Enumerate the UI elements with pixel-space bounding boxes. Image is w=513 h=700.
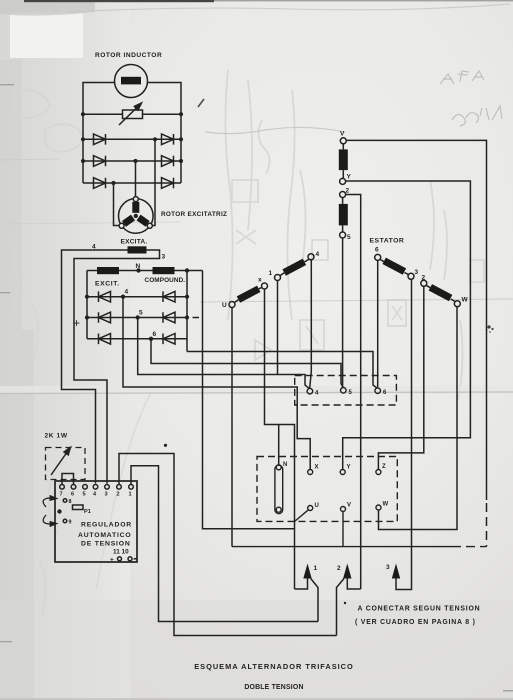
diode D4 — [162, 156, 174, 167]
pencil handwriting top right — [440, 71, 502, 126]
terminal box1-4 — [307, 388, 313, 394]
terminal 2 right stator — [421, 280, 427, 286]
svg-text:7: 7 — [60, 492, 63, 498]
terminal box1-6 — [375, 388, 381, 394]
terminal V stator — [340, 138, 346, 144]
node N (excitation neutral) — [136, 268, 140, 272]
svg-text:5: 5 — [139, 310, 143, 317]
svg-text:ROTOR INDUCTOR: ROTOR INDUCTOR — [95, 52, 162, 59]
svg-text:AUTOMATICO: AUTOMATICO — [78, 532, 131, 539]
ghost bleed-through marks — [12, 70, 484, 616]
terminal t6 — [71, 485, 76, 490]
svg-text:ESTATOR: ESTATOR — [370, 238, 405, 245]
terminal t1 — [129, 485, 134, 490]
terminal U box2 — [308, 506, 313, 511]
stator coil V-Y (black bar) — [339, 149, 348, 170]
svg-text:ROTOR EXCITATRIZ: ROTOR EXCITATRIZ — [161, 211, 227, 218]
svg-text:+: + — [110, 557, 114, 564]
terminal N box2 — [276, 465, 281, 470]
arrow 1 head — [303, 564, 311, 579]
wire: t1 loop to arrow1 lower bus — [131, 466, 318, 622]
diode D5 — [94, 178, 106, 189]
coil COMPOUND (black bar) — [153, 267, 175, 274]
svg-text:U: U — [222, 302, 227, 309]
node: stray dot 2 — [344, 602, 346, 604]
scan top edge — [24, 0, 214, 2]
wire: U box2 diagonal to arrow1 line — [295, 510, 309, 522]
stator coil 2-5 (black bar) — [339, 204, 348, 226]
svg-text:( VER CUADRO EN PAGINA 8 ): ( VER CUADRO EN PAGINA 8 ) — [355, 619, 476, 626]
terminal t7 — [60, 485, 65, 490]
terminal box 2 (dashed) — [257, 457, 397, 522]
terminal x stator — [262, 283, 268, 289]
svg-text:2K 1W: 2K 1W — [45, 433, 68, 440]
wire: bridge row 2 — [83, 160, 181, 162]
svg-text:2: 2 — [117, 492, 120, 498]
wire: V coil stubs — [342, 144, 344, 179]
wire: 2 right down then left to Z — [378, 286, 423, 469]
terminal 6 stator — [375, 254, 381, 260]
fuse bottom terminal — [276, 507, 281, 512]
terminal U stator — [229, 302, 235, 308]
terminal box 1 (dashed) — [295, 376, 397, 406]
adjuster arrows left — [43, 498, 56, 507]
terminal t5 — [83, 485, 88, 490]
fuse F1 capsule — [275, 465, 283, 514]
terminal Z box2 — [376, 470, 381, 475]
svg-text:Y: Y — [347, 174, 352, 181]
svg-text:6: 6 — [71, 492, 74, 498]
svg-text:3: 3 — [105, 492, 108, 498]
diode D1 — [94, 134, 106, 145]
terminal W box2 — [376, 505, 381, 510]
wire: excitation output row — [87, 270, 203, 272]
wire: dashed lower part of V line — [486, 503, 488, 547]
wire: row2 junction down to exciter rotor top terminal — [135, 161, 137, 197]
wire: arrow1 diagonal to lower bus — [311, 579, 318, 622]
svg-text:V: V — [347, 503, 351, 509]
regulator U1 box — [55, 481, 137, 562]
wire: 2-5 coil stubs — [342, 198, 344, 233]
wire: bus from - bus to box1 terminal 6 — [187, 352, 377, 389]
terminal X box2 — [308, 470, 313, 475]
terminal Y stator — [340, 178, 346, 184]
node: exciter center — [134, 214, 138, 218]
terminal Y box2 — [340, 470, 345, 475]
node: compound row / right bus — [185, 268, 189, 272]
wire: row3 junction down to exciter rotor left terminal — [114, 183, 120, 226]
arrow line 2 bracket — [347, 578, 360, 590]
wire: V to right side down — [346, 140, 486, 500]
wire: top bridge left bus — [82, 114, 84, 183]
svg-text:9: 9 — [69, 520, 72, 526]
resistor 2K 1W dashed box — [46, 448, 86, 480]
rotor inductor winding (black bar) — [121, 77, 141, 85]
svg-text:COMPOUND.: COMPOUND. — [145, 277, 186, 284]
wire: 6-3 coil stubs — [380, 259, 408, 274]
coil EXCITA (black bar) — [128, 246, 147, 253]
svg-text:3: 3 — [415, 269, 419, 276]
terminal: exciter bottom-right — [147, 223, 152, 228]
svg-text:1: 1 — [314, 565, 318, 572]
node: lower row2 junction 5 — [136, 315, 140, 319]
paper shading patches — [0, 60, 34, 700]
wire: U-x coil stubs — [234, 287, 262, 302]
terminal: exciter top — [133, 197, 138, 202]
top-left corner shading — [0, 0, 95, 16]
node: lower row3 junction 6 — [149, 337, 153, 341]
terminal 8 inside — [63, 499, 67, 503]
wire: lower bridge row 1 — [87, 296, 187, 298]
node: right bus / rheostat — [179, 112, 183, 116]
node: row2 center junction — [133, 159, 137, 163]
terminal V box2 — [341, 507, 346, 512]
wire: bus from junction 4 to terminal X staircase — [123, 297, 310, 470]
wire: compound output down to U node — [203, 271, 295, 529]
stator coil 6-3 (black bar) — [382, 258, 406, 275]
terminal 2 stator mid — [340, 192, 346, 198]
svg-text:11 10: 11 10 — [113, 549, 129, 556]
svg-text:1: 1 — [269, 270, 273, 277]
wire: bridge row 1 — [83, 138, 181, 140]
crease lines — [0, 386, 513, 394]
svg-text:DOBLE TENSION: DOBLE TENSION — [244, 684, 303, 691]
svg-text:Y: Y — [347, 465, 351, 471]
svg-text:P1: P1 — [84, 509, 91, 515]
wire: rotor inductor left lead — [83, 83, 115, 115]
terminal 5 stator mid — [340, 232, 346, 238]
wire: rotor inductor right lead — [148, 83, 182, 115]
exciter winding right bar — [137, 215, 150, 227]
svg-text:W: W — [383, 502, 389, 508]
wire: lower bridge left (+) bus — [86, 271, 88, 339]
wire: lower bridge row 3 — [87, 338, 187, 340]
wire: 5 down to box1 terminal — [342, 238, 344, 387]
svg-text:2: 2 — [337, 565, 341, 572]
terminal box1-5 — [341, 388, 347, 394]
diode D9 — [99, 312, 111, 323]
wire: bus from junction 5 to box1 terminal 4 — [138, 318, 310, 389]
wire: bus from junction 6 to box1 terminal 5 — [151, 339, 343, 388]
exciter winding left bar — [122, 215, 135, 227]
wire: 1 down to bus join — [277, 281, 279, 375]
rotor inductor M1 (circle) — [115, 65, 148, 98]
label - — [193, 317, 200, 319]
svg-text:U: U — [315, 503, 319, 509]
svg-text:W: W — [462, 297, 469, 304]
wire: 1-4 coil stubs — [280, 259, 309, 275]
svg-text:x: x — [258, 277, 262, 284]
rotor excitatriz G1 (circle) — [119, 199, 154, 234]
diode D3 — [94, 156, 106, 167]
exciter winding top bar — [132, 202, 139, 213]
terminal 9 inside — [63, 519, 67, 523]
svg-text:8: 8 — [69, 499, 72, 505]
wire: 2 to long vertical down to arrow line 2 — [346, 195, 361, 590]
svg-text:1: 1 — [129, 492, 132, 498]
svg-text:REGULADOR: REGULADOR — [81, 522, 132, 529]
wire: 3 down to arrow 3 — [396, 279, 412, 589]
wire: lower bridge row 2 — [87, 317, 187, 319]
top paper crease — [70, 4, 510, 12]
wire: arrow2 diagonal to lower bus — [337, 579, 345, 636]
svg-text:EXCIT.: EXCIT. — [95, 281, 120, 288]
rheostat arrow — [119, 104, 141, 126]
node: row1 left bus — [81, 137, 85, 141]
svg-text:ESQUEMA ALTERNADOR TRIFASICO: ESQUEMA ALTERNADOR TRIFASICO — [194, 662, 354, 671]
node: row2 left bus — [81, 159, 85, 163]
arrow 2 head — [343, 564, 351, 579]
node: lower row2 right bus — [185, 315, 189, 319]
resistor arrow — [51, 448, 70, 475]
coil EXCIT (black bar) — [97, 267, 119, 274]
terminal 3 stator — [408, 273, 414, 279]
potentiometer P1 — [73, 505, 84, 510]
wire: bridge row 3 — [83, 182, 181, 184]
wire: V box2 down to line — [342, 512, 344, 547]
svg-text:5: 5 — [83, 492, 86, 498]
wire: dashed continuation to V line — [452, 546, 487, 548]
white sticker top-left — [10, 13, 83, 58]
terminal 1 stator — [275, 275, 281, 281]
svg-text:4: 4 — [316, 251, 320, 258]
terminal t2 — [117, 485, 122, 490]
wire: top bridge right bus — [180, 114, 182, 183]
svg-text:6: 6 — [375, 247, 379, 254]
node: row3 center junction — [111, 181, 115, 185]
wire: excita left lead going to regulator t4 — [62, 250, 128, 484]
right edge ink blotch — [486, 325, 494, 332]
wire: row1 junction down to exciter rotor right terminal — [152, 139, 155, 225]
wire: U down to node line — [231, 308, 233, 547]
svg-text:Z: Z — [382, 464, 386, 470]
node: row2 right bus — [179, 159, 183, 163]
stator coil 1-4 (black bar) — [282, 259, 306, 276]
node: lower row1 right bus — [185, 295, 189, 299]
wire: lower bridge right (-) bus — [186, 271, 188, 352]
wire: excita right lead return to regulator t3 — [74, 250, 160, 484]
wire: W down to box2 W — [379, 307, 458, 530]
wire: t2 loop to arrow2 lower bus — [119, 454, 337, 636]
node: lower row1 left bus — [85, 295, 89, 299]
arrow 3 head — [392, 564, 400, 579]
svg-text:+: + — [73, 316, 80, 330]
node: row1 right bus — [179, 137, 183, 141]
svg-text:5: 5 — [347, 234, 351, 241]
wire: 2-W coil stubs — [426, 285, 454, 301]
svg-text:4: 4 — [125, 289, 129, 296]
node: stray dot 1 — [164, 444, 167, 447]
diode D6 — [162, 178, 174, 189]
diode D2 — [162, 134, 174, 145]
node: left bus / rheostat — [81, 112, 85, 116]
stator coil U-x (black bar) — [237, 286, 261, 303]
svg-text:EXCITA.: EXCITA. — [121, 239, 148, 246]
wire: branch down to N terminal — [278, 425, 280, 465]
terminal 4 stator — [308, 254, 314, 260]
wire: 4 down to box1 terminal — [310, 260, 312, 389]
svg-text:N: N — [136, 263, 141, 270]
arrow line 1 bracket — [295, 578, 308, 590]
diode D8 — [163, 291, 175, 302]
svg-text:V: V — [340, 131, 345, 138]
diode D7 — [99, 291, 111, 302]
wire: 6 down to box1 terminal — [377, 260, 379, 387]
svg-text:X: X — [315, 465, 319, 471]
wire: jumper t7-t6 — [62, 474, 74, 485]
terminal t3 — [105, 485, 110, 490]
wire: rheostat row — [83, 113, 181, 115]
node: lower row2 left bus — [85, 315, 89, 319]
wire: U node horizontal — [232, 546, 452, 548]
terminal: exciter bottom-left — [119, 223, 124, 228]
diode D12 — [163, 334, 175, 345]
node: row1 center junction — [153, 137, 157, 141]
diode D11 — [99, 334, 111, 345]
svg-text:N: N — [283, 462, 287, 468]
terminal W stator — [454, 301, 460, 307]
svg-text:6: 6 — [153, 331, 157, 338]
node: adjuster dot — [57, 509, 61, 513]
svg-text:3: 3 — [162, 254, 166, 261]
rheostat R1 body — [123, 110, 143, 119]
wire: x down then over to N and U-arrow node — [265, 289, 295, 589]
node: lower row1 junction 4 — [121, 295, 125, 299]
stator coil 2-W (black bar) — [429, 284, 453, 301]
svg-text:3: 3 — [386, 564, 390, 571]
terminal t4 — [93, 485, 98, 490]
wire: Y to right and down to box2 Y — [343, 181, 471, 469]
diode D10 — [163, 312, 175, 323]
svg-text:A CONECTAR SEGUN TENSION: A CONECTAR SEGUN TENSION — [358, 606, 481, 613]
svg-text:DE TENSION: DE TENSION — [81, 541, 131, 548]
